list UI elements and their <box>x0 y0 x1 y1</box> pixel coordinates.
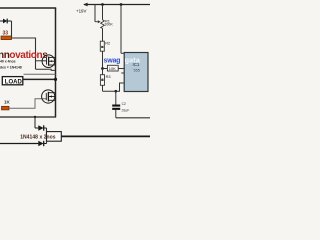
long bottom wire <box>61 135 150 137</box>
wire 1K to M2 gate <box>9 99 46 108</box>
resistor 33 (orange) <box>1 36 12 40</box>
preset wiper arrow <box>95 5 101 24</box>
svg-text:IC1: IC1 <box>133 62 140 67</box>
mosfet T2 (lower) <box>42 90 56 103</box>
svg-text:swag: swag <box>104 58 121 65</box>
wire arm to M1 gate <box>36 60 47 62</box>
wire bottom of divider to IC pin <box>103 83 125 91</box>
wire drop to diode row1 <box>34 117 36 128</box>
preset R1 zigzag <box>102 5 104 20</box>
svg-text:des = 1N4148: des = 1N4148 <box>0 65 22 69</box>
svg-text:1K: 1K <box>4 99 11 104</box>
resistor 10K box horizontal <box>103 68 108 70</box>
wire bottom return at y117 <box>0 116 56 118</box>
mosfet T1 (upper) <box>42 55 55 68</box>
svg-text:40 x 4nos: 40 x 4nos <box>0 59 16 63</box>
diode D1 <box>35 125 47 130</box>
resistor R3 box vertical <box>102 69 104 75</box>
vertical from rail to IC top corner <box>120 5 122 54</box>
wire top rail of left loop <box>0 7 56 9</box>
diode D3 top-left <box>0 19 12 24</box>
junction dots on rail <box>101 3 104 6</box>
short stub pin <box>121 72 124 74</box>
resistor R2 box <box>100 41 104 51</box>
svg-text:1N4148 x 2nos: 1N4148 x 2nos <box>20 134 56 140</box>
wire LOAD to bus <box>23 78 56 80</box>
svg-text:R3: R3 <box>106 74 111 79</box>
LOAD box <box>2 77 23 85</box>
svg-text:10K: 10K <box>109 66 116 71</box>
svg-text:33: 33 <box>3 31 9 37</box>
capacitor C2 <box>115 91 117 104</box>
svg-text:LOAD: LOAD <box>5 80 23 86</box>
label box (white) <box>47 132 62 142</box>
junction dot on bus <box>54 78 57 81</box>
svg-text:R2: R2 <box>105 41 110 46</box>
+19V supply rail <box>83 3 150 7</box>
diode D2 with wire from left edge <box>0 141 47 146</box>
wire from node right then down along x35.5 <box>12 38 36 69</box>
wire arm at bottom of vertical to bus <box>36 69 56 70</box>
svg-text:100K: 100K <box>104 23 113 27</box>
vertical link along box left <box>46 128 48 144</box>
wire cap to right edge <box>116 117 150 119</box>
wire gray mid rail to bus <box>24 73 56 75</box>
svg-text:C2: C2 <box>122 102 126 106</box>
junction dot <box>34 116 36 118</box>
svg-text:555: 555 <box>134 68 140 72</box>
svg-text:+19V: +19V <box>76 9 86 14</box>
wire right vertical bus of left loop <box>55 8 57 117</box>
wire from diode down to resistor node <box>11 21 13 38</box>
svg-text:.01uF: .01uF <box>121 108 129 112</box>
IC1 555 box <box>124 53 148 92</box>
